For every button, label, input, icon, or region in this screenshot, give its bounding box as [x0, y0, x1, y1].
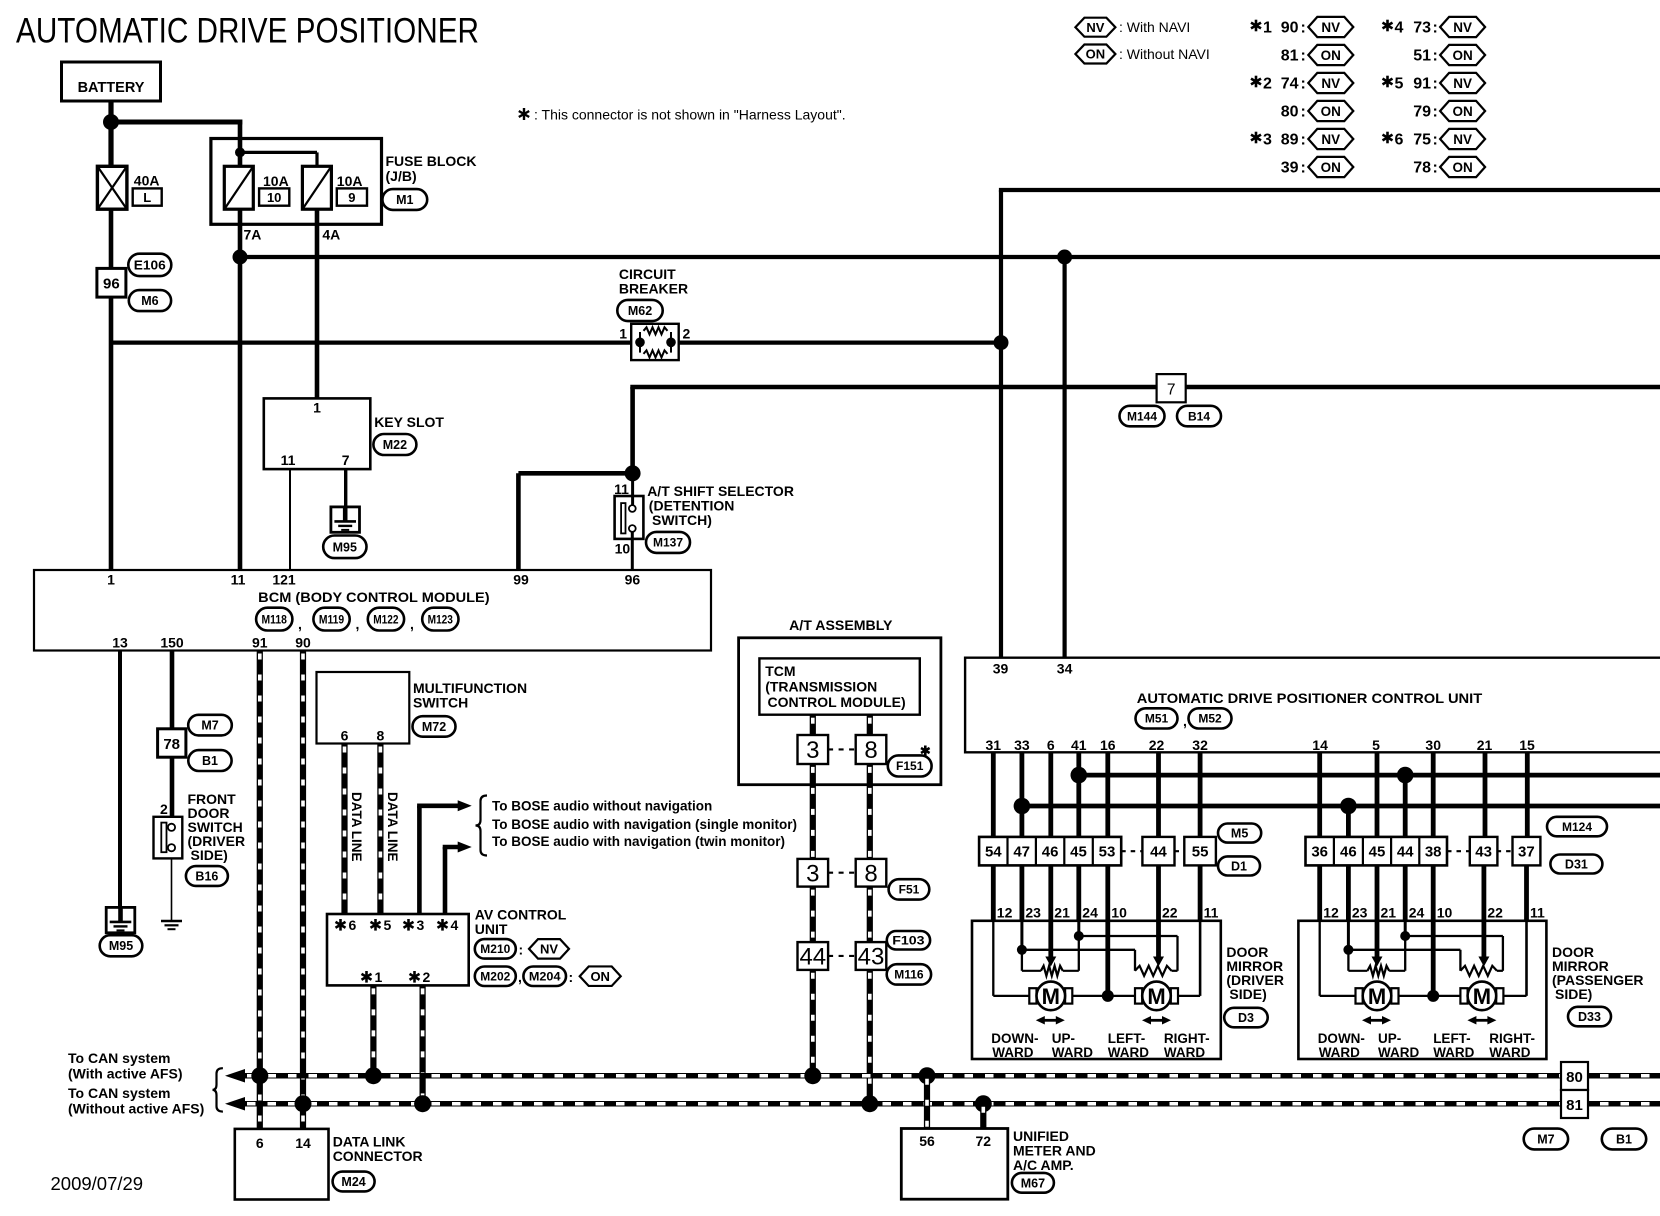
svg-text:1: 1	[313, 400, 321, 416]
svg-text:(TRANSMISSION: (TRANSMISSION	[765, 679, 877, 695]
svg-text:M95: M95	[109, 939, 133, 953]
data link connector M24	[235, 1129, 423, 1200]
connector 81 on CAN2	[1561, 1090, 1588, 1118]
svg-text:WARD: WARD	[1433, 1045, 1474, 1060]
junction node 90 CAN2	[295, 1095, 312, 1112]
svg-text:53: 53	[1099, 844, 1116, 861]
svg-text:23: 23	[1352, 905, 1368, 921]
svg-text:23: 23	[1025, 905, 1041, 921]
svg-text:6: 6	[1047, 737, 1055, 753]
svg-text:M22: M22	[383, 438, 407, 452]
svg-text:78: 78	[163, 736, 180, 753]
text to BOSE audio without navigation	[492, 799, 712, 814]
svg-text:ON: ON	[1321, 104, 1341, 119]
junction node meter56 CAN1	[919, 1067, 936, 1084]
svg-text:10: 10	[615, 541, 631, 557]
wire AT selector to BCM pin 96	[631, 532, 634, 570]
title text	[16, 12, 479, 51]
svg-text:M144: M144	[1127, 409, 1157, 423]
svg-text:9: 9	[348, 190, 355, 205]
svg-text:NV: NV	[540, 942, 558, 957]
svg-text:,: ,	[518, 969, 522, 985]
svg-text:5: 5	[1372, 737, 1380, 753]
wire 44 to CAN1 dashed	[810, 970, 816, 1076]
wire TCM 8 dashed	[867, 715, 873, 735]
control unit pin numbers	[986, 737, 1535, 753]
svg-text:M123: M123	[428, 612, 454, 626]
wire 31	[991, 752, 996, 837]
BCM connector labels M118 M119 M122 M123	[256, 608, 458, 632]
svg-text:5: 5	[384, 917, 392, 933]
bus wire B from pin 33	[1022, 804, 1660, 809]
fuse 10A no.10	[224, 166, 289, 209]
svg-text::: :	[1433, 160, 1438, 177]
svg-text:7: 7	[1167, 382, 1176, 399]
wire 14	[1317, 752, 1322, 837]
wire TCM 3 dashed	[810, 715, 816, 735]
svg-text:M52: M52	[1198, 712, 1222, 726]
svg-text:WARD: WARD	[1108, 1045, 1149, 1060]
svg-text:90: 90	[295, 635, 311, 651]
text to CAN system without active AFS	[68, 1085, 204, 1117]
svg-text:11: 11	[1530, 905, 1545, 921]
svg-text:81: 81	[1566, 1097, 1583, 1114]
wire BCM 150 to door switch	[170, 651, 175, 729]
legend item 90 NV	[1251, 17, 1353, 37]
svg-text:WARD: WARD	[1319, 1045, 1360, 1060]
svg-text:1: 1	[107, 572, 115, 588]
wire battery junction to circuit breaker	[111, 341, 631, 345]
svg-text:39: 39	[1281, 160, 1299, 177]
front door switch label B16	[186, 866, 228, 886]
svg-text:10: 10	[1437, 905, 1453, 921]
svg-text:79: 79	[1413, 104, 1431, 121]
svg-text:ON: ON	[1452, 48, 1472, 63]
svg-text:(J/B): (J/B)	[386, 168, 417, 184]
svg-text:3: 3	[806, 860, 819, 887]
wire MF switch 8 data line	[377, 744, 383, 915]
svg-text:43: 43	[858, 944, 885, 971]
svg-text:30: 30	[1425, 737, 1441, 753]
door mirror driver side D3	[972, 905, 1221, 1061]
wire 44 down dashed	[810, 887, 816, 943]
CAN line 2 arrow	[225, 1097, 245, 1111]
connector label F151	[888, 755, 932, 776]
wire AV star1 to CAN1	[370, 985, 376, 1075]
svg-text:F103: F103	[892, 934, 925, 948]
svg-text:NV: NV	[1453, 132, 1472, 147]
connector 96 E106 M6	[97, 254, 171, 311]
svg-text:SWITCH: SWITCH	[413, 695, 468, 711]
door mirror driver side labels	[1224, 944, 1284, 1027]
svg-text:6: 6	[349, 917, 357, 933]
svg-text:21: 21	[1477, 737, 1493, 753]
svg-text:11: 11	[1204, 905, 1219, 921]
control unit labels M51 M52	[1136, 708, 1232, 729]
svg-text:39: 39	[993, 661, 1009, 677]
wire to passenger mirror pin 7	[1524, 865, 1529, 920]
svg-text:M67: M67	[1021, 1176, 1045, 1190]
svg-text:1: 1	[619, 326, 627, 342]
wire MF switch 6 data line	[341, 744, 347, 915]
svg-text:24: 24	[1409, 905, 1425, 921]
TCM transmission control module	[759, 658, 919, 714]
wire BCM 13 to ground	[118, 651, 122, 908]
connector 78 M7 B1	[158, 715, 232, 771]
svg-text:2: 2	[423, 969, 431, 985]
svg-text:(With active AFS): (With active AFS)	[68, 1066, 182, 1082]
svg-text::: :	[1301, 160, 1306, 177]
legend NV with NAVI	[1075, 18, 1190, 37]
svg-text:80: 80	[1566, 1069, 1583, 1086]
junction node breaker bus	[994, 335, 1009, 350]
key slot label M22	[373, 434, 416, 455]
connector box 44	[1121, 837, 1174, 866]
wire 40A to BCM pin 1	[109, 209, 114, 570]
svg-text:31: 31	[986, 737, 1002, 753]
wire to passenger mirror pin 6	[1482, 865, 1487, 920]
wire to driver mirror pin 3	[1048, 865, 1053, 920]
multifunction switch M72	[317, 672, 528, 744]
wire horizontal y190 to right edge	[999, 188, 1660, 192]
text to CAN system with active AFS	[68, 1050, 182, 1082]
wire 5	[1375, 752, 1380, 837]
svg-text:B1: B1	[202, 754, 218, 768]
junction node 41 bus A	[1071, 767, 1088, 784]
svg-text:8: 8	[377, 728, 385, 744]
svg-text:CONNECTOR: CONNECTOR	[333, 1148, 423, 1164]
wire 43 down dashed	[867, 887, 873, 943]
svg-text:89: 89	[1281, 132, 1299, 149]
svg-text:90: 90	[1281, 20, 1299, 37]
svg-text:91: 91	[1413, 76, 1431, 93]
AT assembly label	[789, 617, 893, 633]
junction node 43 CAN2	[861, 1095, 878, 1112]
legend item 80 ON	[1281, 101, 1354, 121]
connector box 37	[1497, 837, 1541, 866]
svg-text:10: 10	[1111, 905, 1127, 921]
svg-text::: :	[1433, 104, 1438, 121]
svg-text:72: 72	[976, 1133, 992, 1149]
wire door switch to chassis ground	[171, 858, 173, 921]
svg-text:M1: M1	[396, 193, 413, 207]
svg-text:33: 33	[1014, 737, 1030, 753]
fuse block J/B M1	[211, 139, 477, 225]
junction node AV2 CAN2	[414, 1095, 431, 1112]
junction node at x1064	[1057, 250, 1072, 265]
connector 7 M144 B14	[1120, 374, 1222, 426]
svg-text:M7: M7	[201, 719, 218, 733]
legend item 81 ON	[1281, 45, 1354, 65]
svg-text:M51: M51	[1145, 712, 1169, 726]
legend item 79 ON	[1413, 101, 1485, 121]
svg-text:22: 22	[1149, 737, 1165, 753]
svg-text:45: 45	[1369, 844, 1386, 861]
wire to driver mirror pin 6	[1156, 865, 1161, 920]
svg-text:To BOSE audio without navigati: To BOSE audio without navigation	[492, 799, 712, 814]
data line label 2	[385, 792, 400, 862]
wire horizontal y387 to right edge	[630, 385, 1660, 390]
svg-text:NV: NV	[1321, 132, 1340, 147]
wire to driver mirror pin 2	[1020, 865, 1025, 920]
svg-text:FUSE BLOCK: FUSE BLOCK	[386, 153, 477, 169]
connector labels M5 D1	[1218, 824, 1261, 876]
svg-text:44: 44	[799, 944, 826, 971]
wire to driver mirror pin 4	[1076, 865, 1081, 920]
svg-text:NV: NV	[1453, 76, 1472, 91]
wire 15	[1525, 752, 1530, 837]
wire AV unit star3 to BOSE audio	[417, 800, 472, 914]
svg-text:,: ,	[356, 616, 360, 632]
wire circuit breaker to vertical bus	[679, 341, 1001, 345]
connector label F51	[889, 879, 930, 899]
svg-text:To BOSE audio with navigation: To BOSE audio with navigation (single mo…	[492, 817, 797, 832]
svg-text:51: 51	[1413, 48, 1431, 65]
fuse block label M1	[382, 189, 427, 210]
junction node AV1 CAN1	[365, 1067, 382, 1084]
wire 32	[1198, 752, 1203, 837]
svg-text:47: 47	[1013, 844, 1030, 861]
svg-text:1: 1	[375, 969, 383, 985]
svg-text:SIDE): SIDE)	[1555, 986, 1592, 1002]
svg-text:44: 44	[1397, 844, 1414, 861]
CAN line 2 dashed	[243, 1101, 1660, 1107]
svg-text:6: 6	[341, 728, 349, 744]
wire meter 56 dashed	[924, 1076, 930, 1129]
svg-text:BATTERY: BATTERY	[78, 80, 145, 96]
svg-text:6: 6	[256, 1135, 264, 1151]
key slot M22	[264, 398, 445, 469]
svg-text:B16: B16	[195, 870, 218, 884]
wire 30	[1431, 752, 1436, 837]
svg-text:15: 15	[1519, 737, 1535, 753]
wire to driver mirror pin 5	[1105, 865, 1110, 920]
wire to passenger mirror pin 1	[1317, 865, 1322, 920]
svg-text:M6: M6	[141, 294, 158, 308]
svg-text:43: 43	[1475, 844, 1492, 861]
svg-text:96: 96	[625, 572, 641, 588]
svg-text:NV: NV	[1086, 20, 1104, 35]
wire junction to BCM pin 99	[518, 473, 634, 570]
wire 43 to CAN2 dashed	[867, 970, 873, 1104]
svg-text:M210: M210	[480, 942, 510, 956]
svg-text:4A: 4A	[322, 227, 340, 243]
wire to passenger mirror pin 4	[1403, 865, 1408, 920]
svg-text:ON: ON	[1452, 160, 1472, 175]
svg-text:D31: D31	[1565, 858, 1588, 872]
door mirror passenger side D33	[1298, 905, 1546, 1061]
svg-text:UNIT: UNIT	[475, 921, 508, 937]
svg-text:45: 45	[1070, 844, 1087, 861]
svg-text:4: 4	[451, 917, 459, 933]
wire 22	[1156, 752, 1161, 837]
svg-text:TCM: TCM	[765, 663, 795, 679]
wire y387 corner down to AT selector junction	[630, 387, 635, 473]
svg-text:DATA LINE: DATA LINE	[385, 792, 400, 862]
automatic drive positioner control unit	[965, 658, 1660, 753]
wire key slot 11 to BCM 121	[289, 469, 291, 570]
svg-text:F51: F51	[899, 883, 920, 897]
svg-text:: Without NAVI: : Without NAVI	[1119, 46, 1210, 62]
svg-text::: :	[1301, 132, 1306, 149]
svg-text:M204: M204	[529, 970, 561, 984]
legend ON without NAVI	[1075, 45, 1209, 64]
svg-text:B14: B14	[1188, 409, 1210, 423]
svg-text:To CAN system: To CAN system	[68, 1085, 170, 1101]
connector box 43	[1447, 837, 1497, 866]
svg-text:150: 150	[160, 635, 184, 651]
svg-text:10A: 10A	[337, 173, 363, 189]
svg-text:WARD: WARD	[1164, 1045, 1205, 1060]
svg-text::: :	[1433, 76, 1438, 93]
wire BCM 91 CAN dashed	[257, 651, 263, 1129]
svg-text:32: 32	[1192, 737, 1208, 753]
legend item 75 NV	[1383, 129, 1486, 149]
wire to driver mirror pin 1	[991, 865, 996, 920]
svg-text:M24: M24	[341, 1175, 365, 1189]
connector label M116	[887, 964, 931, 984]
svg-text:M119: M119	[319, 612, 345, 626]
svg-text:UP-: UP-	[1378, 1031, 1401, 1046]
svg-text:2: 2	[160, 801, 168, 817]
junction node bus A to mirror 44	[1397, 767, 1414, 784]
svg-text:40A: 40A	[134, 173, 160, 189]
svg-text:41: 41	[1071, 737, 1087, 753]
svg-text:12: 12	[997, 905, 1013, 921]
svg-text:11: 11	[281, 452, 296, 468]
svg-text:ON: ON	[590, 969, 610, 984]
svg-text:46: 46	[1042, 844, 1059, 861]
wire to passenger mirror pin 2	[1346, 865, 1351, 920]
svg-text:75: 75	[1413, 132, 1431, 149]
svg-text:14: 14	[1312, 737, 1328, 753]
svg-text:L: L	[143, 190, 151, 205]
svg-text:NV: NV	[1321, 76, 1340, 91]
junction node 44 CAN1	[804, 1067, 821, 1084]
wire 78 to front door switch	[170, 757, 175, 817]
svg-text:SIDE): SIDE)	[1229, 986, 1266, 1002]
unified meter and AC amp M67	[901, 1128, 1095, 1199]
svg-text:M95: M95	[333, 540, 357, 554]
svg-text:D33: D33	[1578, 1010, 1601, 1024]
svg-text:14: 14	[295, 1135, 311, 1151]
wire junction into AT shift selector	[631, 473, 634, 508]
AV control unit labels M210 NV	[475, 939, 569, 959]
svg-text:DOWN-: DOWN-	[991, 1031, 1038, 1046]
wire meter 72 dashed	[980, 1104, 986, 1129]
svg-text:10: 10	[267, 190, 281, 205]
svg-text:73: 73	[1413, 20, 1431, 37]
junction node 7A horizontal feed	[233, 250, 248, 265]
svg-text:M: M	[1368, 984, 1386, 1009]
label 7A	[244, 227, 262, 243]
legend item 73 NV	[1383, 17, 1486, 37]
svg-text:M116: M116	[894, 968, 924, 982]
svg-text:BREAKER: BREAKER	[619, 281, 688, 297]
svg-text::: :	[569, 969, 574, 985]
svg-text::: :	[1301, 104, 1306, 121]
svg-text:2: 2	[1263, 76, 1272, 93]
date	[51, 1173, 144, 1194]
svg-text:24: 24	[1082, 905, 1098, 921]
AV control unit	[327, 907, 567, 986]
CAN line 1 dashed	[243, 1073, 1660, 1079]
svg-text:4: 4	[1395, 20, 1404, 37]
svg-text:M202: M202	[480, 970, 510, 984]
chassis ground door switch	[161, 921, 182, 929]
svg-text:F151: F151	[896, 759, 924, 773]
legend item 78 ON	[1413, 157, 1485, 177]
connector labels M7 B1 right	[1524, 1129, 1647, 1150]
legend item 89 NV	[1251, 129, 1353, 149]
wire 41	[1076, 752, 1081, 837]
wire battery to junction	[108, 101, 113, 125]
svg-text:99: 99	[513, 572, 529, 588]
svg-text:37: 37	[1518, 844, 1535, 861]
svg-text:M137: M137	[653, 536, 683, 550]
svg-text:ON: ON	[1086, 47, 1106, 62]
svg-text:96: 96	[103, 276, 120, 293]
svg-text:121: 121	[272, 572, 296, 588]
wire fuse 7A to BCM pin 11	[238, 209, 243, 570]
wire down to control unit pin 34	[1062, 257, 1066, 658]
svg-text:13: 13	[112, 635, 128, 651]
svg-text:7: 7	[342, 452, 350, 468]
svg-text:44: 44	[1150, 844, 1167, 861]
wire 8 down dashed	[867, 764, 873, 859]
battery B1	[62, 62, 161, 101]
BCM body control module	[34, 570, 711, 651]
svg-text:6: 6	[1395, 132, 1404, 149]
front door switch driver side B16	[154, 791, 246, 863]
junction node AT selector	[625, 465, 641, 481]
svg-text:M: M	[1147, 984, 1165, 1009]
svg-text:11: 11	[231, 572, 246, 588]
junction node battery	[103, 114, 119, 130]
svg-text:NV: NV	[1321, 20, 1340, 35]
svg-text:M124: M124	[1562, 820, 1592, 834]
svg-text:12: 12	[1323, 905, 1339, 921]
svg-text::: :	[1301, 20, 1306, 37]
svg-text:8: 8	[864, 737, 877, 764]
wire 33	[1020, 752, 1025, 837]
wire fuse 4A to key slot pin 1	[315, 209, 320, 398]
junction node 33 bus B	[1014, 798, 1031, 815]
wire vertical bus x1001 to control unit pin 39	[999, 190, 1003, 658]
connector box 55	[1175, 837, 1216, 866]
svg-text:3: 3	[806, 737, 819, 764]
svg-text:CONTROL MODULE): CONTROL MODULE)	[768, 694, 906, 710]
svg-text:(Without active AFS): (Without active AFS)	[68, 1101, 204, 1117]
data link connector label M24	[333, 1172, 375, 1192]
connector labels M124 D31	[1547, 817, 1607, 874]
wire 21	[1483, 752, 1488, 837]
svg-text:M62: M62	[628, 304, 652, 318]
svg-text:21: 21	[1054, 905, 1070, 921]
svg-text:10A: 10A	[263, 173, 289, 189]
svg-text:91: 91	[252, 635, 268, 651]
svg-text:: With NAVI: : With NAVI	[1119, 19, 1190, 35]
wire key slot 7 to ground	[344, 469, 347, 508]
legend item 91 NV	[1383, 73, 1486, 93]
legend item 74 NV	[1251, 73, 1353, 93]
svg-text:78: 78	[1413, 160, 1431, 177]
svg-text:80: 80	[1281, 104, 1299, 121]
svg-text:,: ,	[1183, 713, 1187, 729]
wire BCM 90 CAN dashed	[300, 651, 306, 1129]
svg-text:M5: M5	[1231, 827, 1248, 841]
svg-text:38: 38	[1425, 844, 1442, 861]
